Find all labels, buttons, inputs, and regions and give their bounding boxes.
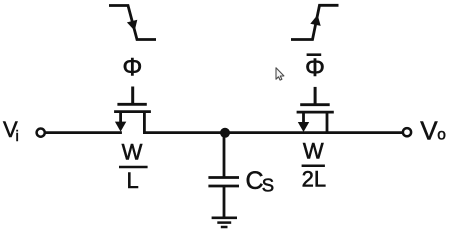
capacitor CS: [208, 178, 239, 187]
svg-text:Φ: Φ: [122, 54, 142, 82]
label Vi: [3, 117, 19, 145]
svg-text:S: S: [262, 174, 274, 195]
svg-text:L: L: [126, 168, 138, 193]
wire: node down to capacitor: [223, 133, 226, 178]
svg-text:i: i: [16, 128, 19, 145]
label W/L (M1 aspect ratio): [119, 140, 148, 194]
transistor M2 (NMOS switch, phi-bar): [297, 87, 334, 134]
label phi (clock phase): [122, 54, 142, 82]
wire: M1 drain to Vo terminal (through node): [143, 131, 403, 134]
label phi-bar (complementary clock phase): [305, 54, 325, 82]
output terminal Vo (open circle): [403, 128, 411, 136]
wire: Vi terminal to M1 source: [45, 131, 122, 134]
clock waveform: rising edge for phi-bar: [291, 5, 339, 39]
input terminal Vi (open circle): [37, 129, 45, 137]
svg-text:Φ: Φ: [305, 54, 325, 82]
label W/2L (M2 aspect ratio): [302, 138, 327, 191]
node: junction of M1, CS and M2: [220, 128, 230, 138]
svg-text:V: V: [420, 115, 438, 145]
svg-text:W: W: [303, 138, 324, 163]
svg-text:2L: 2L: [302, 167, 326, 192]
label Vo: [420, 115, 446, 145]
mouse cursor: [276, 68, 284, 80]
transistor M1 (NMOS switch, phi): [114, 87, 151, 134]
ground: [212, 218, 237, 227]
svg-text:o: o: [437, 127, 446, 144]
wire: capacitor to ground: [223, 186, 226, 218]
svg-text:W: W: [122, 140, 143, 165]
label CS: [246, 167, 275, 195]
clock waveform: falling edge for phi: [109, 6, 156, 40]
